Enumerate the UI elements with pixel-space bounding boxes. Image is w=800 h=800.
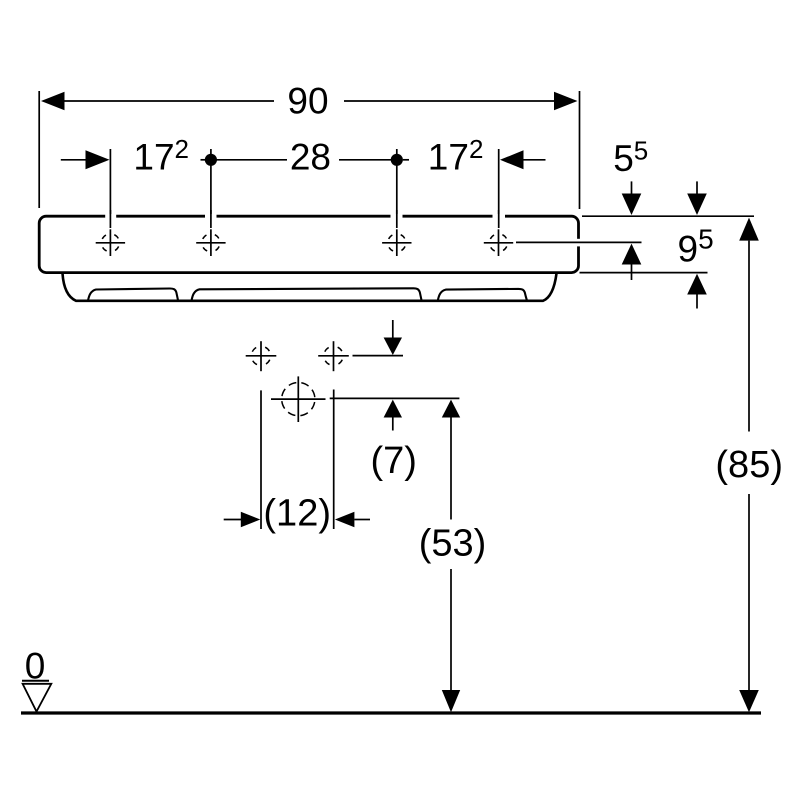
drain cross vertical: [297, 376, 299, 422]
rim bottom reference line extended right: [580, 272, 708, 274]
datum underline: [22, 680, 49, 682]
arrowhead 90 left: [41, 92, 65, 110]
svg-text:(7): (7): [370, 440, 416, 482]
dimension line 28 left segment: [217, 159, 288, 161]
svg-text:(85): (85): [715, 444, 783, 486]
basin skirt outline: [63, 273, 557, 300]
drain cross horizontal: [271, 398, 326, 400]
faucet axis reference line: [353, 355, 404, 357]
down arrowhead for 7 dim: [384, 338, 402, 356]
tap hole cross 3: [382, 229, 411, 256]
up arrow stem for 7 dim: [392, 418, 394, 431]
svg-text:(53): (53): [419, 523, 487, 565]
svg-text:(12): (12): [263, 492, 331, 534]
up arrowhead at x697 on rim bottom line: [687, 274, 707, 295]
arrow stem 17-2 left: [61, 159, 86, 161]
extension line re-draw x110 lower part: [109, 210, 111, 228]
drain axis reference line: [330, 397, 460, 399]
arrowhead 12 left pointing right: [241, 512, 260, 528]
ground line: [21, 711, 761, 714]
dimension line 90 right segment: [344, 100, 558, 102]
arrow stem 12 right: [354, 519, 370, 521]
arrowhead 12 right pointing left: [335, 512, 355, 528]
arrowhead 90 right: [554, 92, 578, 110]
skirt recess bump 3: [438, 289, 527, 301]
extension line re-draw x397 lower part: [396, 210, 398, 228]
up arrowhead for 7 dim: [384, 400, 402, 418]
arrowhead 17-2 right pointing left: [500, 150, 524, 169]
drain hole dashed circle: [279, 380, 317, 418]
extension line from dot B down: [396, 165, 398, 228]
stub right of dot B: [403, 159, 409, 161]
skirt recess bump 2: [192, 288, 422, 300]
tap hole cross 1: [96, 229, 125, 256]
skirt recess bump 1: [88, 288, 178, 300]
up arrow stem at x697: [696, 295, 698, 309]
faucet cross right: [318, 341, 349, 371]
svg-text:95: 95: [678, 223, 714, 269]
up arrowhead at x631 on tap axis: [622, 244, 642, 265]
stub left of dot A: [201, 159, 206, 161]
arrow stem 12 left: [224, 519, 241, 521]
dimension line 90 left segment: [60, 100, 274, 102]
datum triangle: [23, 684, 52, 712]
85 dim down arrowhead at ground: [739, 690, 759, 712]
85 dim line lower segment: [748, 494, 750, 691]
extension line at x261: [260, 390, 262, 529]
svg-text:172: 172: [133, 134, 189, 178]
up arrowhead for 53 dim: [442, 400, 460, 418]
53 dim down arrowhead at ground: [442, 690, 460, 712]
extension line right of 90 dim: [579, 91, 581, 209]
extension line from dot A down: [210, 165, 212, 228]
down arrowhead at x697: [687, 194, 707, 216]
extension line at x499: [498, 149, 500, 228]
85 dim up arrowhead: [739, 218, 759, 241]
53 dim line lower segment: [450, 569, 452, 691]
dot node B: [391, 154, 403, 166]
53 dim line upper segment: [450, 418, 452, 520]
svg-text:28: 28: [290, 136, 331, 177]
faucet cross left: [246, 341, 277, 371]
tap hole cross 2: [196, 229, 225, 256]
stub above dot B: [396, 149, 398, 154]
stub above dot A: [210, 149, 212, 154]
arrow stem 17-2 right: [524, 159, 546, 161]
extension line at x110: [109, 149, 111, 228]
down arrow stem at x631: [631, 181, 633, 194]
extension line re-draw x211 lower part: [210, 210, 212, 228]
up arrow stem at x631: [631, 265, 633, 281]
tap hole cross 4: [484, 229, 513, 256]
extension line re-draw x499 lower part: [498, 210, 500, 228]
dimension line 28 right segment: [339, 159, 391, 161]
dot node A: [205, 154, 217, 166]
rim top reference line extended right: [582, 215, 754, 217]
tap axis leader line from cross 4: [516, 241, 642, 243]
svg-text:172: 172: [428, 134, 484, 178]
extension line at x334: [333, 390, 335, 530]
down arrowhead at x631: [622, 194, 642, 216]
svg-text:55: 55: [613, 135, 648, 179]
basin rim outline: [39, 216, 578, 272]
extension line left of 90 dim: [38, 91, 40, 208]
arrowhead 17-2 left pointing right: [86, 150, 110, 169]
svg-text:90: 90: [287, 81, 328, 122]
down arrow stem for 7 dim: [392, 320, 394, 338]
85 dim line upper segment: [748, 241, 750, 432]
white gaps in rim top edge at extension crossings: [105, 216, 578, 246]
down arrow stem at x697: [696, 181, 698, 194]
